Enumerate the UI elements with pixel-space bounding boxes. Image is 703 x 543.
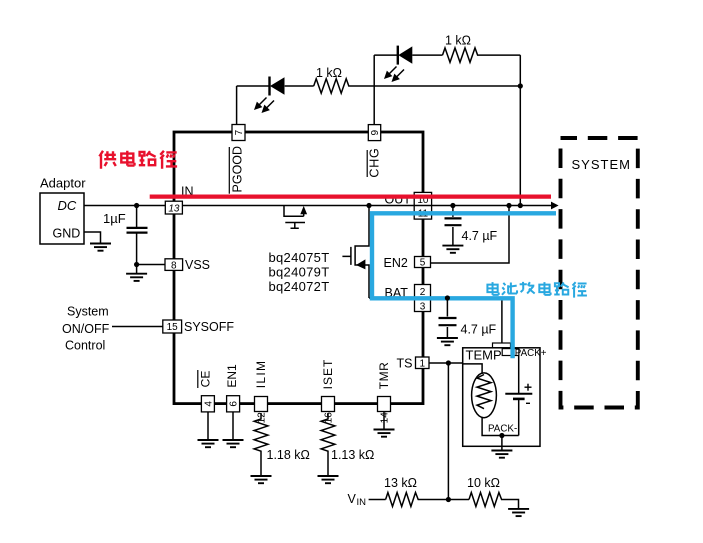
svg-text:9: 9 [370, 129, 381, 135]
svg-text:EN2: EN2 [384, 256, 408, 270]
svg-text:GND: GND [53, 227, 81, 241]
svg-text:1.13 kΩ: 1.13 kΩ [331, 448, 374, 462]
svg-text:V: V [348, 492, 357, 506]
svg-text:TEMP: TEMP [466, 348, 502, 363]
svg-text:PACK-: PACK- [488, 424, 517, 435]
svg-text:4: 4 [203, 401, 214, 407]
svg-text:4.7 µF: 4.7 µF [462, 229, 498, 243]
svg-text:EN1: EN1 [225, 364, 239, 388]
svg-text:PACK+: PACK+ [515, 348, 547, 359]
svg-text:10 kΩ: 10 kΩ [467, 476, 500, 490]
svg-text:IN: IN [357, 497, 367, 508]
svg-text:Adaptor: Adaptor [40, 176, 86, 191]
svg-text:ISET: ISET [321, 359, 335, 390]
svg-text:7: 7 [234, 129, 245, 135]
svg-text:Control: Control [65, 339, 105, 353]
svg-text:DC: DC [58, 198, 77, 213]
svg-text:1µF: 1µF [103, 211, 126, 226]
svg-text:1 kΩ: 1 kΩ [445, 34, 471, 48]
svg-text:13 kΩ: 13 kΩ [384, 476, 417, 490]
svg-text:System: System [67, 305, 109, 319]
svg-text:1.18 kΩ: 1.18 kΩ [267, 448, 310, 462]
svg-text:CHG: CHG [368, 147, 382, 177]
svg-text:6: 6 [229, 401, 240, 407]
svg-text:SYSOFF: SYSOFF [184, 320, 234, 334]
svg-text:5: 5 [420, 258, 426, 269]
svg-text:16: 16 [324, 412, 335, 424]
svg-text:4.7 µF: 4.7 µF [461, 323, 497, 337]
svg-text:12: 12 [257, 412, 268, 424]
svg-text:8: 8 [171, 260, 177, 271]
svg-text:3: 3 [420, 301, 426, 312]
svg-text:TMR: TMR [377, 362, 391, 390]
svg-text:14: 14 [380, 412, 391, 424]
svg-text:1 kΩ: 1 kΩ [316, 66, 342, 80]
svg-text:bq24072T: bq24072T [269, 279, 330, 294]
svg-text:1: 1 [420, 358, 426, 369]
svg-text:bq24075T: bq24075T [269, 250, 330, 265]
svg-text:SYSTEM: SYSTEM [572, 157, 631, 172]
svg-text:15: 15 [167, 322, 179, 333]
svg-text:ILIM: ILIM [254, 360, 268, 389]
svg-text:ON/OFF: ON/OFF [62, 322, 110, 336]
svg-text:TS: TS [397, 357, 413, 371]
svg-text:CE: CE [198, 371, 212, 388]
svg-text:VSS: VSS [185, 258, 210, 272]
svg-text:bq24079T: bq24079T [269, 265, 330, 280]
svg-text:13: 13 [168, 204, 180, 215]
svg-text:PGOOD: PGOOD [230, 146, 244, 193]
